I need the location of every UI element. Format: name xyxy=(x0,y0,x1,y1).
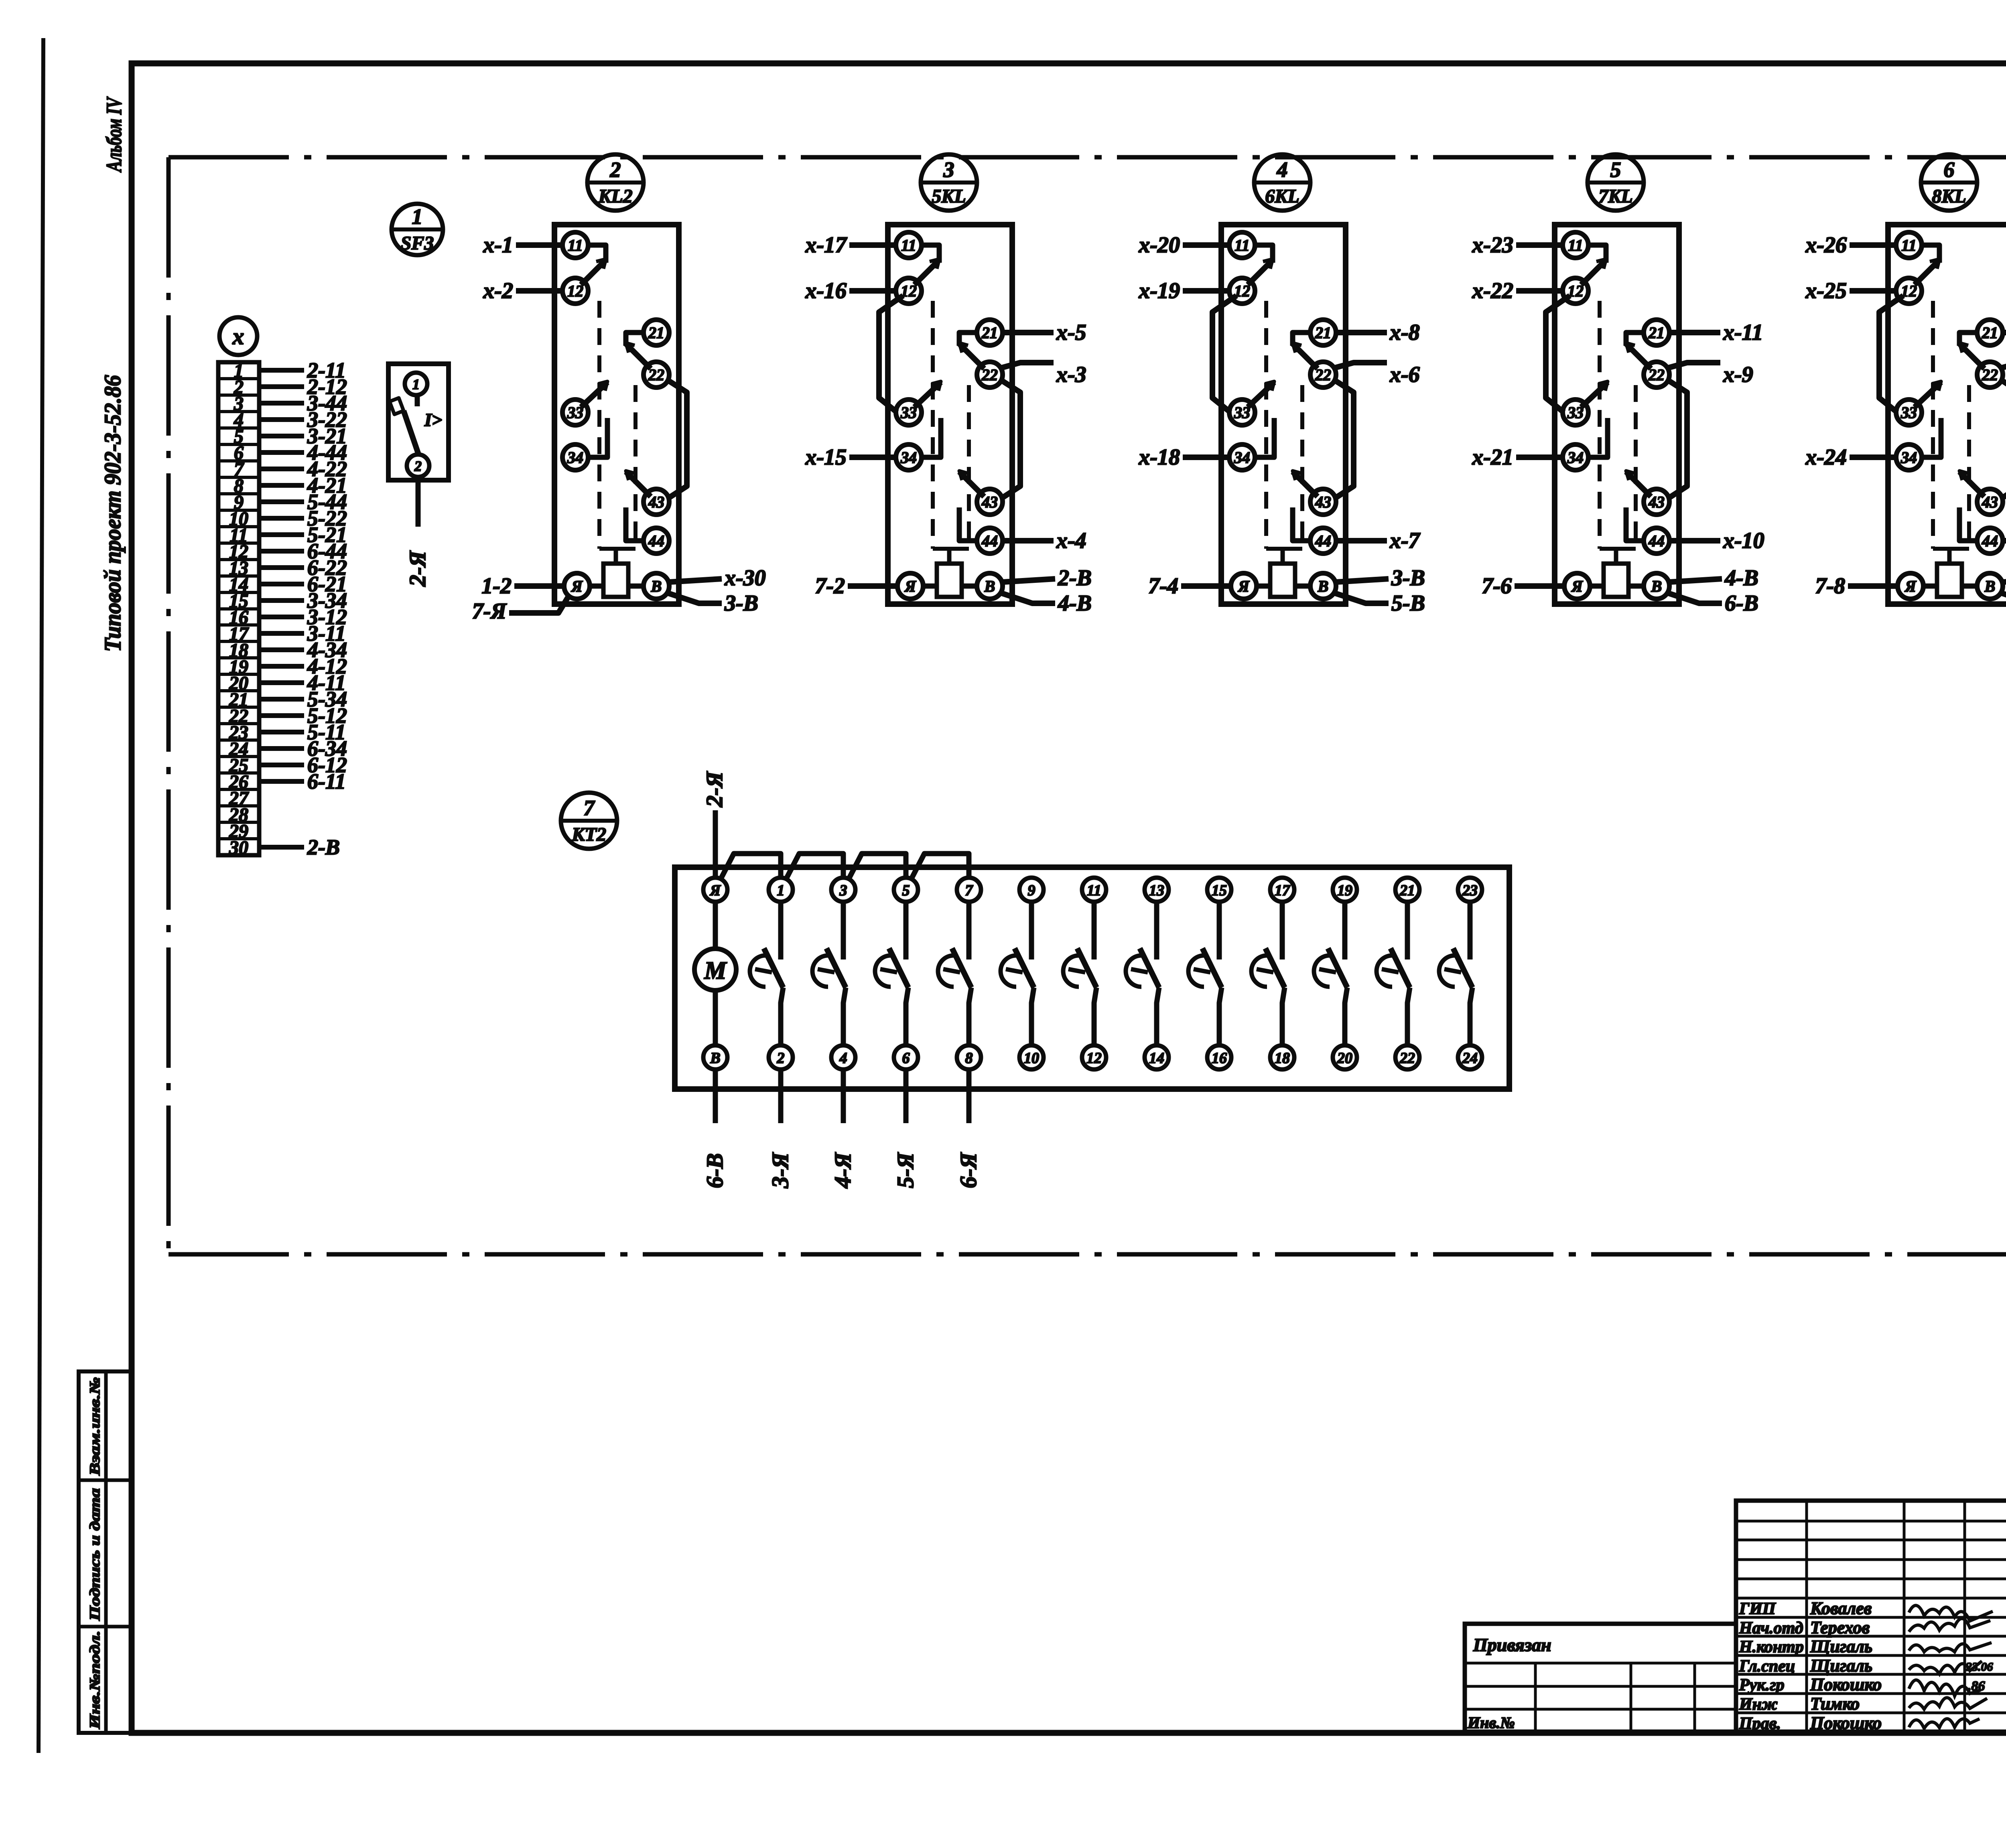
wire SF3:2 to 2-Я xyxy=(416,477,421,527)
svg-text:Покошко: Покошко xyxy=(1810,1675,1882,1694)
terminal X:10 xyxy=(218,509,259,512)
svg-text:x-2: x-2 xyxy=(483,278,513,303)
wire terminal X:26 to 6-11 xyxy=(259,779,304,784)
relay 7KL pin 21 xyxy=(1644,320,1669,345)
relay 5KL designator 3/5KL xyxy=(921,154,977,211)
svg-text:Взам.инв.№: Взам.инв.№ xyxy=(87,1377,103,1476)
wire KT2:4 to 4-Я xyxy=(841,1069,846,1123)
relay 5KL pin 12 xyxy=(896,278,922,304)
relay 8KL coil xyxy=(1937,564,1962,597)
terminal X:3 xyxy=(218,394,259,397)
KT2 bottom pin 14 xyxy=(1145,1045,1169,1069)
wire terminal X:20 to 4-11 xyxy=(259,680,304,685)
KT2 contact 3-4 xyxy=(841,902,846,959)
svg-text:x-26: x-26 xyxy=(1805,233,1847,258)
relay 7KL coil xyxy=(1604,564,1628,597)
svg-text:x: x xyxy=(232,323,244,349)
svg-text:Нач.отд: Нач.отд xyxy=(1739,1619,1803,1637)
wire 8KL:44 to x-13 xyxy=(2003,538,2006,544)
svg-text:x-1: x-1 xyxy=(483,233,513,258)
wire terminal X:2 to 2-12 xyxy=(259,384,304,389)
svg-text:11: 11 xyxy=(1568,236,1583,254)
relay 6KL wire 22 to 43 (right loop) xyxy=(1333,379,1354,499)
relay KL2 pin 33 xyxy=(562,400,588,425)
svg-text:Типовой проект 902-3-52.86: Типовой проект 902-3-52.86 xyxy=(99,375,126,652)
terminal X:19 xyxy=(218,656,259,659)
relay KL2 pin 43 xyxy=(644,489,669,515)
svg-text:Я: Я xyxy=(1571,577,1583,595)
terminal X:15 xyxy=(218,591,259,594)
svg-text:44: 44 xyxy=(981,532,998,550)
svg-text:x-8: x-8 xyxy=(1389,320,1420,345)
wire 8KL:В to 5-В xyxy=(2003,579,2006,582)
relay 7KL pin 11 xyxy=(1563,232,1588,258)
svg-text:3: 3 xyxy=(943,158,954,182)
terminal X:23 xyxy=(218,722,259,725)
wire terminal X:18 to 4-34 xyxy=(259,647,304,652)
svg-text:21: 21 xyxy=(1982,324,1998,342)
svg-text:SF3: SF3 xyxy=(401,233,434,254)
jumper Я-1 xyxy=(720,854,781,880)
SF3 pin 2 xyxy=(407,454,429,477)
terminal X:25 xyxy=(218,755,259,758)
wire 7-8 to 8KL:Я xyxy=(1848,583,1898,589)
relay 5KL pin 34 xyxy=(896,444,922,470)
wire motor to KT2:В xyxy=(713,990,718,1045)
svg-text:2-Я: 2-Я xyxy=(404,550,430,587)
relay 6KL contact 43 xyxy=(1293,472,1318,497)
wire 6KL:21 to x-8 xyxy=(1336,330,1387,335)
svg-text:30: 30 xyxy=(229,837,248,858)
title block left extension (Привязан) xyxy=(1465,1624,1736,1732)
relay 5KL pin 11 xyxy=(896,232,922,258)
relay 5KL wire 11 to contact 12 xyxy=(921,245,939,263)
svg-text:7-8: 7-8 xyxy=(1815,574,1845,598)
relay 6KL wire 12 to 33 (left loop) xyxy=(1212,296,1236,412)
relay 8KL pin 44 xyxy=(1977,528,2003,554)
relay 8KL designator 6/8KL xyxy=(1921,154,1977,211)
relay 8KL wire 12 to 33 (left loop) xyxy=(1879,296,1903,412)
terminal X:24 xyxy=(218,738,259,742)
wire 6KL:44 to x-7 xyxy=(1336,538,1387,544)
SF3 pin 1 xyxy=(405,373,427,395)
wire 6KL:22 to x-6 xyxy=(1333,363,1387,368)
relay 6KL designator 4/6KL xyxy=(1254,154,1310,211)
jumper 5-7 xyxy=(911,854,969,880)
svg-text:21: 21 xyxy=(1399,882,1415,899)
relay 5KL wire 22 to 43 (right loop) xyxy=(999,379,1020,499)
relay 7KL pin 44 xyxy=(1644,528,1669,554)
relay 5KL contact 43 xyxy=(959,472,984,497)
wire 5KL:21 to x-5 xyxy=(1003,330,1054,335)
wire terminal X:19 to 4-12 xyxy=(259,664,304,669)
svg-text:7: 7 xyxy=(965,882,974,899)
relay 5KL pin В xyxy=(977,573,1003,599)
wire terminal X:12 to 6-44 xyxy=(259,549,304,554)
wire 8KL:21 to x-14 xyxy=(2003,330,2006,335)
relay 7KL link 44-43 xyxy=(1626,507,1644,541)
terminal X:4 xyxy=(218,410,259,413)
relay 6KL pin В xyxy=(1310,573,1336,599)
terminal X:28 xyxy=(218,804,259,807)
jumper 3-5 xyxy=(848,854,906,880)
jumper 1-3 xyxy=(786,854,843,880)
panel boundary (dash-dot) left xyxy=(166,157,171,1254)
KT2 contact 5-6 xyxy=(904,902,909,959)
relay 7KL armature dashed link xyxy=(1598,301,1602,549)
relay KL2 pin Я xyxy=(564,573,590,599)
terminal X:16 xyxy=(218,607,259,611)
svg-text:В: В xyxy=(1651,577,1662,595)
svg-text:Инв.№подл.: Инв.№подл. xyxy=(87,1631,103,1729)
relay KL2 pin 12 xyxy=(562,278,588,304)
terminal X:13 xyxy=(218,558,259,561)
relay 6KL pin 44 xyxy=(1310,528,1336,554)
wire terminal X:14 to 6-21 xyxy=(259,582,304,586)
svg-text:x-9: x-9 xyxy=(1723,362,1753,387)
wire 5KL:44 to x-4 xyxy=(1003,538,1054,544)
svg-text:6-Я: 6-Я xyxy=(955,1152,981,1188)
svg-text:x-5: x-5 xyxy=(1056,320,1086,345)
relay 7KL designator 5/7KL xyxy=(1588,154,1644,211)
KT2 top pin 13 xyxy=(1145,878,1169,902)
panel boundary (dash-dot) bottom xyxy=(169,1252,2006,1257)
svg-text:Н.контр: Н.контр xyxy=(1739,1638,1804,1656)
relay KL2 pin В xyxy=(644,573,669,599)
svg-text:7-4: 7-4 xyxy=(1148,574,1178,598)
svg-text:Терехов: Терехов xyxy=(1810,1618,1870,1637)
svg-text:44: 44 xyxy=(648,532,664,550)
relay 6KL link 34-33 xyxy=(1255,418,1274,457)
svg-text:21: 21 xyxy=(1315,324,1331,342)
wire terminal X:8 to 4-21 xyxy=(259,483,304,488)
relay 7KL pin 22 xyxy=(1644,362,1669,387)
relay 6KL pin 21 xyxy=(1310,320,1336,345)
KT2 top pin 15 xyxy=(1207,878,1231,902)
wire x-22 to 7KL:12 xyxy=(1516,288,1563,294)
wire terminal X:25 to 6-12 xyxy=(259,763,304,767)
svg-text:2: 2 xyxy=(414,458,422,474)
relay 7KL wire 21 to contact 22 xyxy=(1626,333,1644,346)
relay 5KL contact 12 xyxy=(914,260,939,285)
relay KL2 body xyxy=(554,225,679,604)
svg-text:x-30: x-30 xyxy=(724,566,766,590)
relay 5KL armature dashed link xyxy=(931,301,935,549)
relay 8KL pin 21 xyxy=(1977,320,2003,345)
wire 7KL:44 to x-10 xyxy=(1669,538,1720,544)
relay 8KL pin 33 xyxy=(1896,400,1922,425)
KT2 bottom pin 10 xyxy=(1019,1045,1044,1069)
wire x-26 to 8KL:11 xyxy=(1850,242,1896,248)
KT2 contact 11-12 xyxy=(1092,902,1097,959)
svg-text:Покошко: Покошко xyxy=(1810,1713,1882,1733)
margin stamp table (Взам.инв.№ / Подпись и дата / Инв.№подл.) xyxy=(79,1371,132,1733)
svg-text:11: 11 xyxy=(1901,236,1917,254)
svg-text:.86: .86 xyxy=(1968,1679,1985,1694)
wire 1-2 to KL2:Я xyxy=(514,583,564,589)
svg-text:Подпись и дата: Подпись и дата xyxy=(87,1488,103,1621)
svg-text:M: M xyxy=(704,957,727,984)
relay 5KL pin 43 xyxy=(977,489,1003,515)
svg-text:7: 7 xyxy=(584,796,595,820)
KT2 top pin Я xyxy=(703,878,727,902)
relay KL2 contact 33 xyxy=(581,382,607,407)
relay 8KL pin 11 xyxy=(1896,232,1922,258)
terminal strip X designator circle xyxy=(219,317,257,355)
svg-text:7KL: 7KL xyxy=(1598,186,1632,207)
wire terminal X:6 to 4-44 xyxy=(259,450,304,455)
svg-text:16: 16 xyxy=(1212,1050,1227,1067)
wire 7-2 to 5KL:Я xyxy=(848,583,897,589)
relay 7KL contact 22 xyxy=(1626,344,1651,369)
KT2 top pin 9 xyxy=(1019,878,1044,902)
relay 7KL contact 33 xyxy=(1581,382,1608,407)
wire x-15 to 5KL:34 xyxy=(849,454,896,460)
svg-text:1: 1 xyxy=(412,376,420,392)
svg-text:8: 8 xyxy=(965,1050,973,1067)
svg-text:KL2: KL2 xyxy=(598,186,632,207)
relay 7KL contact 12 xyxy=(1581,260,1606,285)
KT2 bottom pin 12 xyxy=(1082,1045,1106,1069)
svg-text:6KL: 6KL xyxy=(1265,186,1299,207)
relay 6KL contact 22 xyxy=(1293,344,1318,369)
wire 6KL:В to 5-В xyxy=(1333,592,1389,603)
relay KL2 armature dashed link xyxy=(597,301,601,549)
svg-text:Альбом IV: Альбом IV xyxy=(102,96,126,172)
KT2 top pin 3 xyxy=(831,878,855,902)
relay 6KL pin 43 xyxy=(1310,489,1336,515)
svg-text:4-В: 4-В xyxy=(1058,591,1092,616)
relay 7KL pin 12 xyxy=(1563,278,1588,304)
KT2 contact 9-10 xyxy=(1029,902,1034,959)
svg-text:34: 34 xyxy=(1900,448,1917,467)
svg-text:x-3: x-3 xyxy=(1056,362,1086,387)
svg-text:Я: Я xyxy=(1904,577,1917,595)
svg-text:7-Я: 7-Я xyxy=(472,599,507,624)
wire KT2:8 to 6-Я xyxy=(966,1069,972,1123)
wire terminal X:16 to 3-12 xyxy=(259,615,304,619)
svg-text:3-В: 3-В xyxy=(1391,566,1425,590)
svg-text:x-17: x-17 xyxy=(805,233,847,258)
motor M of KT2 xyxy=(694,949,736,990)
relay 6KL body xyxy=(1221,225,1346,604)
wire x-19 to 6KL:12 xyxy=(1183,288,1229,294)
title block signature table xyxy=(1736,1501,2006,1732)
KT2 top pin 17 xyxy=(1270,878,1294,902)
relay 5KL pin 21 xyxy=(977,320,1003,345)
svg-text:4: 4 xyxy=(1277,158,1288,182)
wire terminal X:17 to 3-11 xyxy=(259,631,304,636)
relay 7KL body xyxy=(1555,225,1679,604)
relay 7KL wire 22 to 43 (right loop) xyxy=(1666,379,1687,499)
relay KL2 wire 21 to contact 22 xyxy=(626,333,644,346)
relay 6KL armature dashed link xyxy=(1264,301,1268,549)
svg-text:44: 44 xyxy=(1648,532,1665,550)
relay 5KL pin 33 xyxy=(896,400,922,425)
svg-text:5-Я: 5-Я xyxy=(892,1152,918,1188)
svg-text:5KL: 5KL xyxy=(932,186,966,207)
terminal X:26 xyxy=(218,771,259,775)
svg-text:x-24: x-24 xyxy=(1805,445,1847,470)
svg-text:2: 2 xyxy=(777,1050,785,1067)
relay 6KL pin 12 xyxy=(1229,278,1255,304)
wire 5KL:В to 4-В xyxy=(999,592,1055,603)
svg-text:В: В xyxy=(1318,577,1329,595)
svg-text:2-В: 2-В xyxy=(307,835,340,859)
KT2 bottom pin В xyxy=(703,1045,727,1069)
KT2 bottom pin 18 xyxy=(1270,1045,1294,1069)
svg-text:24: 24 xyxy=(1462,1050,1478,1067)
relay KL2 coil xyxy=(603,564,628,597)
svg-text:34: 34 xyxy=(567,448,583,467)
relay 6KL contact 33 xyxy=(1248,382,1274,407)
svg-text:8KL: 8KL xyxy=(1932,186,1966,207)
svg-text:7-6: 7-6 xyxy=(1482,574,1512,598)
designator 7/КТ2 xyxy=(561,793,617,849)
relay 5KL body xyxy=(888,225,1012,604)
KT2 top pin 21 xyxy=(1395,878,1419,902)
svg-text:22: 22 xyxy=(1399,1050,1415,1067)
relay KL2 wire 22 to 43 (right loop) xyxy=(666,379,687,499)
relay 5KL pin 22 xyxy=(977,362,1003,387)
svg-text:В: В xyxy=(1984,577,1996,595)
wire 5KL:22 to x-3 xyxy=(1000,363,1054,368)
terminal X:2 xyxy=(218,377,259,380)
relay 8KL wire 22 to 43 (right loop) xyxy=(2000,379,2006,499)
relay KL2 pin 22 xyxy=(644,362,669,387)
SF3 breaker contact xyxy=(415,395,420,406)
KT2 contact 7-8 xyxy=(966,902,972,959)
relay 5KL link 34-33 xyxy=(921,418,941,457)
wire 5KL:В to 2-В xyxy=(1003,579,1055,582)
terminal X:29 xyxy=(218,821,259,824)
svg-text:I>: I> xyxy=(424,410,442,430)
svg-text:x-16: x-16 xyxy=(805,278,847,303)
relay 7KL link 34-33 xyxy=(1588,418,1608,457)
KT2 bottom pin 20 xyxy=(1333,1045,1357,1069)
svg-text:Гл.спец: Гл.спец xyxy=(1739,1657,1795,1676)
svg-text:6: 6 xyxy=(902,1050,910,1067)
relay KL2 contact 43 xyxy=(626,472,651,497)
relay KL2 pin 21 xyxy=(644,320,669,345)
svg-text:x-25: x-25 xyxy=(1805,278,1847,303)
panel boundary (dash-dot) top xyxy=(169,155,2006,160)
wire KL2:В to x-30 xyxy=(669,579,722,582)
svg-text:13: 13 xyxy=(1149,882,1164,899)
svg-text:В: В xyxy=(984,577,995,595)
svg-text:x-18: x-18 xyxy=(1138,445,1180,470)
wire 7KL:22 to x-9 xyxy=(1667,363,1720,368)
KT2 contact 1-2 xyxy=(778,902,784,959)
svg-text:В: В xyxy=(710,1050,720,1067)
relay 8KL wire 11 to contact 12 xyxy=(1921,245,1939,263)
terminal X:18 xyxy=(218,640,259,643)
svg-text:x-20: x-20 xyxy=(1138,233,1180,258)
wire terminal X:11 to 5-21 xyxy=(259,532,304,537)
svg-text:19: 19 xyxy=(1337,882,1352,899)
KT2 top pin 7 xyxy=(957,878,981,902)
terminal X:7 xyxy=(218,459,259,463)
relay 8KL body xyxy=(1888,225,2006,604)
wire terminal X:21 to 5-34 xyxy=(259,697,304,702)
relay 6KL wire 11 to contact 12 xyxy=(1255,245,1273,263)
svg-text:2-Я: 2-Я xyxy=(701,771,727,807)
wire terminal X:24 to 6-34 xyxy=(259,746,304,751)
svg-text:18: 18 xyxy=(1275,1050,1290,1067)
relay 8KL link 34-33 xyxy=(1921,418,1941,457)
terminal X:8 xyxy=(218,476,259,479)
svg-text:11: 11 xyxy=(1234,236,1250,254)
svg-text:Тимко: Тимко xyxy=(1810,1694,1860,1714)
svg-text:4-Я: 4-Я xyxy=(830,1152,856,1189)
relay 6KL pin Я xyxy=(1231,573,1257,599)
KT2 contact 23-24 xyxy=(1468,902,1473,959)
svg-text:x-23: x-23 xyxy=(1472,233,1513,258)
svg-text:Я: Я xyxy=(904,577,916,595)
svg-text:34: 34 xyxy=(900,448,917,467)
svg-text:КТ2: КТ2 xyxy=(571,824,606,845)
svg-text:3-В: 3-В xyxy=(724,591,758,616)
relay 7KL pin 34 xyxy=(1563,444,1588,470)
KT2 contact 19-20 xyxy=(1342,902,1348,959)
svg-text:Я: Я xyxy=(571,577,583,595)
wire terminal X:22 to 5-12 xyxy=(259,713,304,718)
svg-text:В: В xyxy=(651,577,662,595)
wire 7-4 to 6KL:Я xyxy=(1181,583,1231,589)
svg-text:12: 12 xyxy=(1086,1050,1102,1067)
svg-text:21: 21 xyxy=(648,324,664,342)
wire x-24 to 8KL:34 xyxy=(1850,454,1896,460)
svg-text:2: 2 xyxy=(610,158,621,182)
relay 6KL pin 34 xyxy=(1229,444,1255,470)
relay 6KL wire 21 to contact 22 xyxy=(1293,333,1311,346)
terminal X:30 xyxy=(218,837,259,840)
svg-text:15: 15 xyxy=(1212,882,1227,899)
svg-text:x-22: x-22 xyxy=(1472,278,1513,303)
svg-text:6: 6 xyxy=(1944,158,1955,182)
wire x-16 to 5KL:12 xyxy=(849,288,896,294)
KT2 bottom pin 24 xyxy=(1458,1045,1482,1069)
wire 7KL:В to 6-В xyxy=(1666,592,1722,603)
relay 6KL contact 12 xyxy=(1248,260,1273,285)
svg-text:ГИП: ГИП xyxy=(1739,1600,1776,1618)
wire terminal X:5 to 3-21 xyxy=(259,434,304,438)
relay KL2 pin 44 xyxy=(644,528,669,554)
wire terminal X:10 to 5-22 xyxy=(259,516,304,521)
terminal X:5 xyxy=(218,426,259,430)
svg-text:Инж: Инж xyxy=(1739,1695,1778,1714)
wire terminal X:30 to 2-В xyxy=(259,845,304,850)
circuit breaker SF3 box xyxy=(388,364,449,480)
svg-text:44: 44 xyxy=(1315,532,1331,550)
svg-text:1-2: 1-2 xyxy=(481,574,512,598)
svg-text:6-11: 6-11 xyxy=(307,769,346,793)
relay 8KL contact 33 xyxy=(1915,382,1941,407)
relay KL2 pin 34 xyxy=(562,444,588,470)
relay 7KL contact 43 xyxy=(1626,472,1651,497)
relay 5KL wire 12 to 33 (left loop) xyxy=(879,296,903,412)
relay 6KL pin 33 xyxy=(1229,400,1255,425)
relay 6KL coil xyxy=(1270,564,1295,597)
terminal X:27 xyxy=(218,788,259,791)
svg-text:x-19: x-19 xyxy=(1138,278,1180,303)
svg-text:4-В: 4-В xyxy=(1724,566,1758,590)
svg-text:11: 11 xyxy=(901,236,916,254)
wire KT2:В to 6-В xyxy=(713,1069,718,1123)
terminal X:21 xyxy=(218,689,259,692)
relay 8KL wire 21 to contact 22 xyxy=(1959,333,1978,346)
svg-text:x-6: x-6 xyxy=(1389,362,1420,387)
